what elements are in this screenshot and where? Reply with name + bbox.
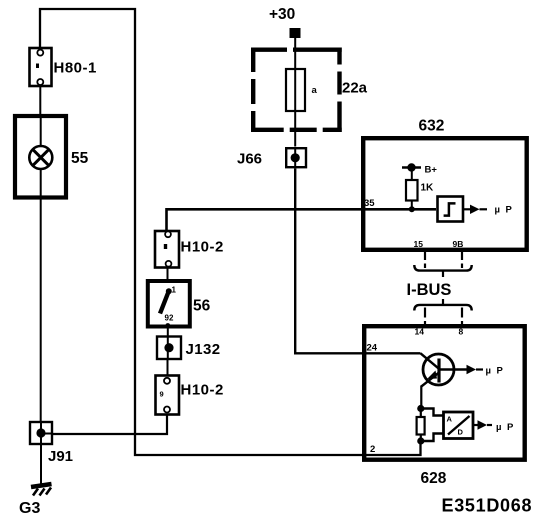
wire: lower H10-2 to J132	[167, 359, 169, 376]
svg-text:1K: 1K	[421, 183, 435, 194]
svg-text:35: 35	[364, 198, 375, 209]
A/D converter U-628	[444, 412, 474, 439]
svg-text:9B: 9B	[453, 239, 464, 249]
terminal +30	[269, 6, 301, 38]
fuse holder box 22a (dashed frame)	[251, 48, 368, 133]
connector H80-1	[30, 48, 97, 86]
wire: J132 to switch 56	[167, 327, 169, 337]
svg-text:I-BUS: I-BUS	[407, 281, 452, 299]
svg-text:J66: J66	[237, 151, 262, 168]
svg-text:14: 14	[415, 327, 425, 337]
arrow collector to microprocessor (628)	[439, 365, 503, 377]
resistor 1K	[406, 168, 434, 210]
control unit box 632	[363, 118, 527, 250]
svg-text:H10-2: H10-2	[181, 239, 224, 256]
svg-text:1: 1	[172, 286, 177, 295]
ground G3	[19, 484, 52, 517]
control unit box 628	[364, 326, 525, 487]
switch 56	[148, 281, 211, 328]
wire: lamp 55 to J91	[40, 198, 42, 423]
svg-text:A: A	[447, 415, 453, 424]
svg-text:55: 55	[71, 150, 89, 167]
sense resistor R-628	[417, 409, 425, 442]
junction connector J66	[237, 148, 306, 168]
junction connector J132	[157, 337, 220, 360]
arrow A/D to microprocessor (628)	[473, 420, 514, 433]
svg-text:632: 632	[419, 118, 445, 135]
svg-text:92: 92	[165, 314, 174, 323]
wire: bottom junction to A/D converter	[421, 434, 444, 442]
svg-text:56: 56	[193, 298, 211, 315]
svg-text:E351D068: E351D068	[442, 496, 533, 516]
arrow to microprocessor (632)	[464, 205, 512, 216]
svg-text:9: 9	[160, 390, 164, 399]
wire: J91 to ground	[40, 444, 42, 484]
svg-text:24: 24	[367, 343, 378, 354]
wire: H80-1 top, around left loop, down to 628 pin 2 junction	[40, 9, 421, 455]
wire: H80-1 to lamp 55	[39, 86, 41, 114]
svg-text:J132: J132	[186, 341, 221, 358]
svg-text:H80-1: H80-1	[54, 60, 97, 77]
svg-text:2: 2	[370, 444, 375, 455]
transistor Q-628	[421, 353, 455, 408]
svg-text:15: 15	[414, 239, 424, 249]
svg-text:D: D	[458, 428, 464, 437]
lamp 55	[15, 116, 89, 198]
junction dot above sense resistor	[417, 405, 424, 412]
wire: J91 to lower H10-2	[52, 415, 167, 435]
wire: upper H10-2 up and right to 632 pin 35	[167, 209, 437, 231]
svg-text:8: 8	[459, 327, 464, 337]
svg-text:G3: G3	[19, 500, 40, 517]
connector H10-2 (upper)	[155, 231, 224, 268]
wire: switch 56 to upper H10-2	[167, 268, 169, 282]
svg-text:628: 628	[421, 470, 447, 487]
junction dot: resistor to pin 35 wire	[409, 206, 415, 212]
schmitt-trigger input stage U-632	[438, 197, 464, 222]
svg-text:J91: J91	[48, 448, 73, 465]
I-BUS connector linkage between 632 and 628	[407, 250, 472, 325]
junction dot below sense resistor	[417, 437, 424, 444]
svg-text:22a: 22a	[342, 80, 368, 97]
svg-text:a: a	[312, 85, 318, 96]
wire: +30 down through fuse 22a to J66	[294, 38, 296, 147]
svg-text:H10-2: H10-2	[181, 382, 224, 399]
wire: J66 down and right to 628 pin 24	[295, 169, 420, 354]
connector H10-2 (lower) pin 9	[156, 376, 224, 415]
svg-text:+30: +30	[269, 6, 295, 23]
junction connector J91	[30, 422, 73, 465]
svg-text:B+: B+	[425, 165, 438, 176]
wire: top junction to A/D converter	[421, 409, 444, 416]
B+ terminal in 632	[402, 163, 437, 175]
